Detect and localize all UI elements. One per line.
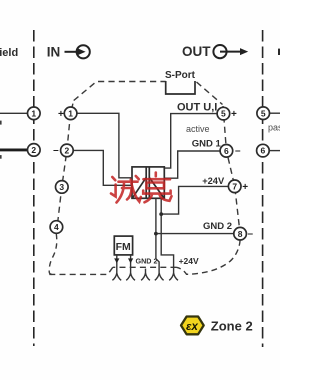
wire +24V : bus to terminal 7	[161, 186, 228, 214]
svg-text:6: 6	[261, 146, 266, 156]
socket 2	[126, 273, 130, 280]
junction +24V	[159, 212, 163, 216]
svg-text:OUT U,I: OUT U,I	[177, 102, 217, 114]
right outer dashed boundary	[262, 30, 264, 347]
S-Port connector bracket	[166, 81, 195, 94]
socket 1	[112, 273, 116, 280]
IN arrow symbol	[65, 45, 90, 58]
svg-text:S-Port: S-Port	[165, 70, 196, 81]
svg-text:5: 5	[261, 108, 266, 118]
wire terminal 1 to transformer	[77, 113, 131, 178]
svg-text:IN: IN	[47, 44, 61, 59]
terminal 7	[228, 180, 241, 193]
wire field to terminal 1	[0, 112, 28, 114]
socket 5	[169, 273, 173, 280]
terminal 6	[220, 145, 233, 158]
socket 3	[145, 269, 147, 273]
svg-text:GND 1: GND 1	[192, 138, 222, 149]
svg-text:OUT: OUT	[182, 44, 211, 59]
svg-text:2: 2	[65, 146, 70, 156]
red watermark character liang	[143, 173, 171, 203]
svg-text:+: +	[231, 109, 237, 120]
bus socket contacts (5 forks)	[112, 269, 178, 281]
transformer / isolator box U1	[132, 167, 164, 198]
terminal R5	[257, 107, 270, 120]
red watermark character cheng	[111, 176, 141, 203]
inner dashed boundary: right terminal chain 5-6-7-8	[223, 106, 240, 234]
terminal 5	[217, 107, 230, 120]
terminal 2	[61, 144, 74, 157]
terminal 3	[56, 181, 69, 194]
FM box	[114, 236, 132, 255]
terminal numbers	[31, 108, 265, 239]
inner dashed boundary: left terminal chain 4-3-2-1	[56, 101, 73, 234]
svg-text:2: 2	[31, 145, 36, 155]
svg-text:+: +	[58, 109, 64, 120]
vertical bus wire +24V from transformer bottom	[161, 199, 173, 273]
socket 4	[155, 273, 159, 280]
svg-text:active: active	[186, 124, 210, 134]
terminal L2	[28, 144, 41, 157]
polarity signs	[53, 109, 253, 240]
svg-text:+24V: +24V	[202, 176, 225, 186]
left outer dashed boundary (Field separator)	[33, 30, 35, 346]
svg-text:1: 1	[68, 108, 73, 118]
OUT arrow symbol	[213, 45, 248, 58]
wire GND 2 : bus to terminal 8	[156, 233, 234, 235]
terminal R6	[257, 144, 270, 157]
svg-text:GND 2: GND 2	[136, 257, 158, 266]
inner dashed boundary: curve up to terminal 4	[49, 234, 57, 274]
vertical bus wire GND 2 from transformer bottom	[156, 199, 159, 273]
inner dashed boundary: jog down-left	[49, 267, 113, 274]
svg-text:–: –	[235, 146, 241, 157]
inner dashed boundary: diagonal S-Port to terminal 5	[197, 82, 223, 105]
svg-text:4: 4	[54, 222, 59, 232]
edge marks	[0, 121, 2, 125]
inner dashed boundary: bottom run through bus connector	[113, 266, 177, 268]
Ex hexagon	[181, 317, 204, 335]
svg-text:7: 7	[232, 181, 237, 191]
svg-text:passive: passive	[268, 123, 280, 133]
wire terminal 2 to transformer	[73, 150, 131, 185]
inner dashed boundary: diagonal + top run to S-Port	[74, 82, 166, 101]
junction GND 2	[154, 232, 158, 236]
svg-text:5: 5	[221, 109, 226, 119]
svg-text:3: 3	[59, 182, 64, 192]
svg-text:+24V: +24V	[179, 256, 199, 266]
FM pin 2 with arrow	[130, 255, 132, 273]
FM pin 1 with arrow	[116, 255, 118, 273]
svg-text:6: 6	[224, 146, 229, 156]
svg-text:GND 2: GND 2	[203, 221, 232, 232]
svg-text:Zone 2: Zone 2	[211, 319, 253, 334]
wires terminals 5,6 to right edge	[269, 112, 280, 114]
svg-text:1: 1	[31, 108, 36, 118]
svg-text:8: 8	[238, 229, 243, 239]
terminal 1	[64, 107, 77, 120]
terminal L1	[28, 107, 41, 120]
wire GND 1 : transformer to terminal 6	[165, 151, 220, 178]
wire field to terminal 2 (thick)	[0, 148, 28, 151]
partial letter at right edge	[278, 49, 280, 55]
inner dashed boundary: curve below terminal 8 to bottom run	[177, 240, 241, 274]
terminal circles	[28, 107, 270, 240]
svg-text:Field: Field	[0, 47, 18, 59]
svg-text:–: –	[53, 145, 59, 156]
svg-text:+: +	[242, 182, 248, 193]
terminal 4	[50, 221, 63, 234]
svg-text:εx: εx	[186, 321, 199, 333]
terminal 8	[234, 227, 247, 240]
svg-text:FM: FM	[116, 241, 131, 253]
svg-text:–: –	[248, 229, 254, 240]
wire OUT U,I : transformer to terminal 5	[165, 114, 217, 169]
